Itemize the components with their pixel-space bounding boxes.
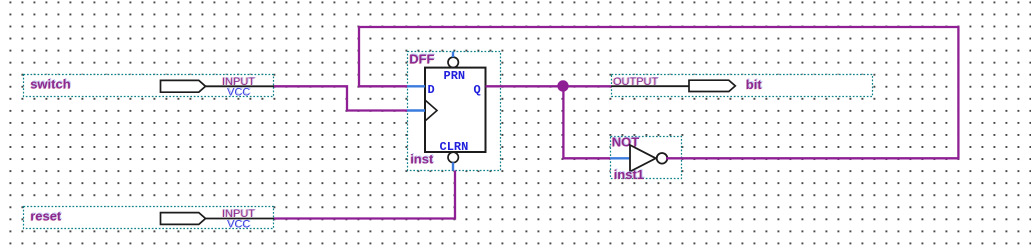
input pin switch xyxy=(24,75,275,99)
svg-text:D: D xyxy=(428,83,435,97)
CLRN pin stub xyxy=(452,162,454,170)
svg-text:reset: reset xyxy=(30,209,62,224)
pin stub wire bit xyxy=(611,85,689,87)
svg-text:PRN: PRN xyxy=(444,69,466,83)
svg-text:VCC: VCC xyxy=(227,86,250,98)
NOT bubble xyxy=(657,153,668,164)
svg-text:CLRN: CLRN xyxy=(440,140,469,154)
D pin stub xyxy=(407,85,425,87)
NOT input stub xyxy=(610,157,630,159)
svg-text:OUTPUT: OUTPUT xyxy=(613,76,659,88)
label VCC xyxy=(227,86,251,99)
label OUTPUT xyxy=(612,75,660,88)
input port symbol reset xyxy=(161,213,206,225)
label inst1 xyxy=(613,166,645,182)
NOT gate inst1 xyxy=(610,133,682,182)
pin stub wire switch xyxy=(206,85,275,87)
D flip-flop U1 (DFF) xyxy=(407,51,501,171)
junction node on Q net xyxy=(557,80,568,91)
DFF body xyxy=(425,68,486,152)
label reset xyxy=(30,208,63,224)
label switch xyxy=(30,75,72,91)
svg-text:inst: inst xyxy=(410,151,434,166)
input pin reset xyxy=(24,207,275,231)
wire Q net branch: from junction down, right to NOT input xyxy=(563,85,610,158)
svg-text:VCC: VCC xyxy=(227,219,250,231)
selection box bit xyxy=(612,75,873,97)
label NOT xyxy=(611,133,640,149)
wire Q net: horizontal from DFF Q to output pin xyxy=(486,85,612,87)
clock triangle xyxy=(425,100,437,121)
PRN bubble xyxy=(448,57,458,67)
PRN pin stub xyxy=(452,52,454,58)
selection box DFF xyxy=(408,52,501,171)
svg-text:DFF: DFF xyxy=(409,52,434,67)
label INPUT xyxy=(221,75,256,88)
pin stub wire reset xyxy=(206,218,275,220)
label inst xyxy=(410,150,435,166)
CLRN bubble xyxy=(448,152,458,162)
output port symbol bit xyxy=(689,80,735,91)
label bit xyxy=(745,76,763,92)
selection box switch xyxy=(24,75,274,97)
input port symbol switch xyxy=(161,80,206,92)
selection box reset xyxy=(24,207,274,229)
wire switch net: from switch pin right, down, right to DFF clock xyxy=(274,86,407,110)
wire reset net: from reset pin right, up to DFF CLRN xyxy=(274,171,455,219)
NOT triangle xyxy=(630,145,656,172)
svg-text:inst1: inst1 xyxy=(614,167,644,182)
output pin bit xyxy=(611,75,873,97)
wire feedback net: from NOT output right, up, left across top, down, right to DFF D xyxy=(359,27,958,158)
label VCC xyxy=(227,218,251,231)
selection box NOT xyxy=(611,137,682,179)
svg-text:Q: Q xyxy=(474,83,481,97)
clock pin stub xyxy=(407,109,425,111)
svg-text:bit: bit xyxy=(746,77,763,92)
label DFF xyxy=(409,51,436,67)
label INPUT xyxy=(221,208,256,221)
svg-text:switch: switch xyxy=(30,76,71,91)
